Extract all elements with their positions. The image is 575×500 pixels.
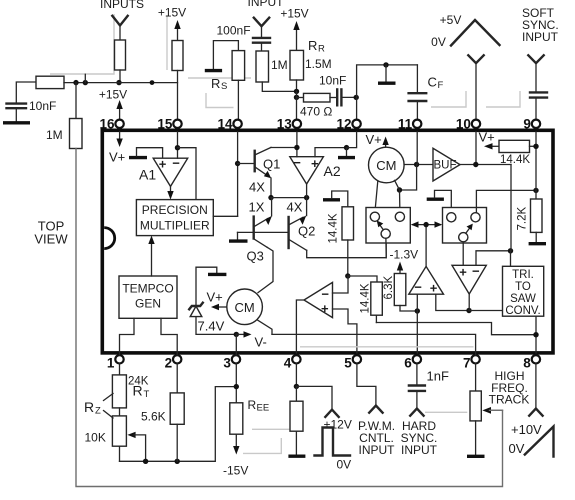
- svg-text:CM: CM: [234, 300, 254, 315]
- arrow V+ left (14.4K horizontal): [490, 145, 499, 147]
- input connector fork (HARD SYNC): [410, 409, 423, 416]
- block TRI TO SAW CONV: [503, 266, 544, 316]
- svg-text:R: R: [84, 399, 94, 415]
- svg-text:4X: 4X: [249, 180, 265, 195]
- wire node to 14.4K lower: [348, 276, 377, 282]
- wire antenna to pin 10: [475, 63, 477, 119]
- node pin3 dot: [234, 384, 239, 389]
- wire load resistor to ground: [295, 431, 297, 454]
- wire cap to pin 9: [535, 98, 537, 119]
- node summing junction dot: [116, 80, 121, 85]
- svg-text:13: 13: [277, 117, 293, 132]
- svg-text:10K: 10K: [85, 431, 106, 445]
- wire trimmer bottom to ground: [475, 421, 477, 455]
- node pin14/Q1 base dot: [235, 161, 240, 166]
- ground bar (Rs): [205, 69, 222, 72]
- svg-text:10nF: 10nF: [319, 74, 346, 88]
- wire pin 7 to trimmer: [475, 364, 477, 392]
- trimmer HIGH FREQ TRACK: [470, 391, 481, 421]
- wire pin11 net down to CM1 right lead: [400, 165, 417, 191]
- SW1 lever arrow: [379, 224, 383, 230]
- wire 6.3K to pin6 node: [400, 306, 417, 312]
- svg-text:-1.3V: -1.3V: [390, 248, 419, 262]
- wire cap to connector: [416, 391, 418, 408]
- svg-text:GEN: GEN: [135, 297, 161, 311]
- ghost wire (dimmed) near pin 10: [431, 91, 466, 107]
- wire pin 9 into IC: [535, 132, 537, 199]
- node pin4 dot: [294, 384, 299, 389]
- block TEMPCO GEN: [119, 276, 177, 318]
- svg-text:−: −: [321, 287, 329, 302]
- wire comparator C + input to SW2: [462, 242, 464, 265]
- wire 1M to pin13 node: [262, 82, 296, 91]
- IC orientation notch: [104, 228, 115, 249]
- wire REE to -15V arrow: [235, 434, 237, 448]
- svg-text:T: T: [144, 389, 150, 400]
- node pin12 dot: [354, 95, 359, 100]
- wire zener bottom to V- node: [196, 317, 236, 335]
- resistor pull-up pin15: [172, 41, 183, 71]
- ghost wire (dimmed) near pin15 pull-up: [166, 15, 168, 70]
- wire Q1 emitter down: [270, 178, 272, 198]
- wire V- node to pin 3: [235, 334, 237, 355]
- svg-text:R: R: [318, 44, 325, 55]
- svg-text:BUF: BUF: [434, 160, 457, 172]
- transistor Q1 (4X): [253, 151, 255, 171]
- ground bar (7.2K): [529, 242, 546, 245]
- wire antenna to 100nF cap: [261, 26, 263, 37]
- wire 470R to 10nF: [330, 97, 337, 99]
- svg-text:TRI.: TRI.: [512, 269, 534, 281]
- svg-text:INPUT: INPUT: [522, 30, 559, 44]
- svg-text:−: −: [414, 280, 422, 295]
- wire pin 8 to connector: [535, 364, 537, 409]
- svg-text:1M: 1M: [46, 128, 63, 142]
- svg-text:+15V: +15V: [280, 7, 308, 21]
- Rz pointer ticks: [104, 394, 114, 401]
- wire TRI box top feed: [510, 251, 512, 266]
- ghost wire (dimmed) near input antenna: [50, 14, 114, 74]
- svg-text:10nF: 10nF: [29, 99, 56, 113]
- svg-text:A1: A1: [139, 167, 156, 183]
- wire 10nF to summing resistor: [16, 82, 36, 103]
- zener 7.4V hook to rail: [196, 267, 217, 305]
- trimmer wiper arrow (10K): [127, 432, 135, 438]
- wire pin 2 to 5.6K: [176, 364, 178, 393]
- resistor summing (horizontal): [36, 76, 64, 88]
- SW2 contact right: [471, 213, 480, 222]
- node 14.4K/comparator dot: [345, 273, 350, 278]
- wire between dots / to pin 13: [296, 91, 298, 119]
- wire resistor to summing node: [119, 70, 121, 83]
- wire pin9 net down to SW2 right contact: [476, 190, 536, 212]
- switch SW1 box: [366, 208, 410, 244]
- ground (wide bar): [3, 121, 30, 124]
- svg-text:0V: 0V: [431, 35, 446, 49]
- pin16 V+ arrow inside: [119, 132, 121, 141]
- node pin13/RR dot: [294, 89, 299, 94]
- svg-text:R: R: [308, 38, 317, 53]
- wire multiplier right to pin14 net: [213, 215, 237, 217]
- pin 10 circle: [472, 120, 480, 128]
- svg-text:+10V: +10V: [511, 422, 542, 437]
- wire pin13 to A2 - input: [296, 132, 298, 157]
- wire cap to ground: [15, 108, 17, 121]
- trimmer wiper arrow (track): [482, 407, 491, 414]
- SW2 contact common: [459, 233, 468, 242]
- wire CM1 left lead to SW1: [375, 181, 378, 212]
- wire pin 4 node: [295, 364, 297, 387]
- wire Q3 collector up to junction: [271, 198, 273, 216]
- svg-text:INPUT: INPUT: [401, 443, 438, 457]
- wire Q1 collector to pin13 node: [271, 147, 297, 149]
- resistor 24K (Rz upper): [112, 375, 126, 408]
- svg-text:4: 4: [284, 356, 292, 371]
- wire pin12 node up and over to pin 11: [357, 65, 418, 98]
- resistor 6.3K: [394, 274, 406, 306]
- input connector antenna (pin9): [528, 55, 543, 63]
- node ghost stub dot: [83, 80, 88, 85]
- svg-text:Q3: Q3: [247, 249, 264, 264]
- svg-text:V+: V+: [109, 150, 125, 165]
- wire pin15 down to A1 - input: [177, 132, 179, 158]
- wire bar hook to 14.4K upper: [332, 191, 348, 207]
- resistor 7.2K: [531, 199, 543, 232]
- wire bar hook to SW2 left contact: [435, 190, 452, 212]
- svg-text:1nF: 1nF: [427, 369, 449, 384]
- svg-text:PRECISION: PRECISION: [142, 203, 208, 217]
- ground bar (pin12 net): [378, 81, 396, 84]
- svg-text:Z: Z: [95, 406, 101, 417]
- wire pin14 vertical: [237, 132, 239, 216]
- ghost wire (dimmed) near Rs: [206, 93, 234, 108]
- resistor RT 5.6K: [170, 393, 184, 424]
- wire 7.2K to ground: [535, 232, 537, 242]
- resistor 14.4K (upper): [342, 207, 354, 240]
- net arrow V-: [236, 333, 245, 335]
- supply arrow +15V RR: [296, 27, 298, 50]
- svg-text:6.3K: 6.3K: [383, 276, 395, 300]
- svg-text:R: R: [248, 398, 257, 412]
- output connector fork (pin4 PWM out): [325, 410, 338, 417]
- wire V+ bar hook to A1 + input: [137, 148, 163, 159]
- pin 11 circle: [413, 120, 421, 128]
- wire pin4 to output connector: [296, 386, 332, 409]
- wire comparator C output: [468, 294, 470, 311]
- wire V- bus to pin7 lead: [272, 334, 476, 355]
- wire BUF output: [460, 164, 511, 166]
- wire 1M tap down: [75, 83, 77, 119]
- wire CM1 to BUF input: [404, 164, 433, 166]
- resistor pin4 load: [290, 401, 303, 431]
- waveform triangle symbol: [451, 20, 500, 46]
- capacitor 10nF (left): [7, 104, 27, 109]
- node mid dot: [150, 80, 155, 85]
- svg-text:+5V: +5V: [440, 13, 462, 27]
- svg-text:CM: CM: [376, 158, 396, 173]
- IC package outline U1: [102, 130, 553, 353]
- ground bar (SW2 left): [427, 197, 444, 200]
- resistor Rs: [232, 51, 245, 81]
- svg-text:Q1: Q1: [263, 157, 280, 172]
- supply arrow V+ CM1: [385, 142, 387, 147]
- resistor 14.4K (lower): [371, 282, 383, 315]
- node pin11/BUF dot: [414, 162, 419, 167]
- node RT dot: [175, 459, 180, 464]
- svg-text:+: +: [430, 281, 438, 296]
- capacitor 1nF: [409, 386, 425, 391]
- ghost wire (dimmed) inside IC bottom: [300, 346, 474, 348]
- comparator B (points up): [409, 266, 444, 294]
- svg-text:5.6K: 5.6K: [141, 410, 166, 424]
- wire 10nF to pin12 node: [341, 96, 356, 98]
- wire TEMPCO right stub to pin 2: [161, 318, 177, 355]
- wire junction to A2 output node: [271, 197, 307, 199]
- svg-text:EE: EE: [257, 403, 270, 414]
- wire node to TRI TO SAW left: [469, 310, 503, 312]
- SW2 contact left: [447, 213, 456, 222]
- ground bar (track trimmer): [467, 455, 485, 458]
- node switch bus dot: [423, 222, 428, 227]
- svg-text:14.4K: 14.4K: [360, 283, 372, 313]
- capacitor 10nF (pin12, vertical plates): [337, 89, 341, 105]
- wire ground stem: [385, 65, 387, 82]
- pin 2 circle: [173, 355, 181, 363]
- output connector fork (saw out): [529, 409, 542, 416]
- wire pin 10 into IC to BUF output: [475, 132, 477, 165]
- wire 10K bottom to bus: [119, 446, 121, 461]
- svg-text:1.5M: 1.5M: [305, 57, 332, 71]
- zener diode 7.4V: [190, 306, 202, 316]
- wire CM2 lower lead to V- bus: [258, 320, 273, 334]
- switch bus double arrow: [413, 224, 441, 226]
- ghost wire (dimmed) right of pin15 node: [188, 77, 251, 79]
- svg-text:SAW: SAW: [510, 293, 536, 305]
- pin 9 circle: [532, 120, 540, 128]
- input connector antenna (pin13): [254, 18, 269, 27]
- node wiper dot: [143, 459, 148, 464]
- switch SW2 box: [443, 208, 487, 244]
- node A2+/pin12 dot: [344, 145, 349, 150]
- wire TEMPCO to multiplier arrow: [151, 241, 153, 276]
- svg-text:R: R: [211, 76, 220, 91]
- svg-text:2: 2: [165, 356, 173, 371]
- node BUF/TRI dot: [508, 248, 513, 253]
- block PRECISION MULTIPLIER: [136, 200, 213, 236]
- pin 3 circle: [232, 355, 240, 363]
- wire 5.6K to bus: [176, 424, 178, 461]
- node 1M tap dot: [73, 80, 78, 85]
- pin 12 circle: [352, 120, 360, 128]
- svg-text:15: 15: [157, 117, 173, 132]
- svg-text:7.4V: 7.4V: [198, 319, 225, 334]
- svg-text:6: 6: [404, 356, 412, 371]
- wire pin12 into IC: [347, 132, 357, 148]
- svg-text:-15V: -15V: [223, 464, 248, 478]
- svg-text:V+: V+: [479, 130, 495, 145]
- node pin9 net dot: [533, 188, 538, 193]
- wire common base bus: [238, 231, 289, 233]
- pin 16 circle: [115, 120, 123, 128]
- input connector fork (PWM CNTL): [369, 406, 382, 413]
- svg-text:R: R: [133, 383, 143, 399]
- node Q1 emitter junction: [268, 195, 273, 200]
- svg-text:−: −: [172, 156, 180, 171]
- svg-text:+: +: [321, 301, 329, 316]
- svg-text:14.4K: 14.4K: [328, 213, 340, 243]
- op-amp A2: [290, 157, 324, 184]
- pin 8 circle: [532, 355, 540, 363]
- svg-text:16: 16: [99, 117, 115, 132]
- wire CF to pin 11: [416, 101, 418, 119]
- SW1 contact right: [395, 212, 404, 221]
- rail bar (A2+): [338, 156, 355, 159]
- ghost wire (dimmed) near REE b: [243, 438, 281, 453]
- wire TEMPCO left stub to pin 1: [120, 318, 135, 355]
- wire comparator output to pin 4: [296, 300, 304, 353]
- wire down to CF: [416, 65, 418, 93]
- wire Q1 base: [238, 163, 254, 165]
- node ground stem dot: [383, 62, 388, 67]
- wire 14.4K lower to feedback: [375, 315, 377, 322]
- ground bar (pin4 load): [288, 455, 305, 458]
- wire CM1 right lead: [395, 180, 400, 190]
- SW2 lever arrow: [466, 228, 470, 234]
- wire pin 11 into IC: [416, 132, 418, 165]
- transistor Q3 (1X): [252, 217, 254, 239]
- node pin9/14.4K dot: [533, 144, 538, 149]
- svg-text:MULTIPLIER: MULTIPLIER: [140, 219, 210, 233]
- resistor 14.4K (horizontal): [499, 140, 530, 152]
- wire pin 5 to connector: [357, 364, 376, 406]
- wire antenna to R input: [119, 26, 121, 41]
- svg-text:10: 10: [456, 117, 471, 132]
- current mirror CM2: [227, 289, 263, 325]
- svg-text:5: 5: [344, 356, 352, 371]
- ground bar (Q2/Q3 base): [229, 239, 248, 242]
- buffer BUF: [433, 148, 460, 181]
- svg-text:VIEW: VIEW: [34, 232, 68, 247]
- wire A1 output arrow: [170, 186, 172, 193]
- wire dot to 470R: [297, 97, 304, 99]
- node pin10/BUF out dot: [473, 162, 478, 167]
- wire Q2 collector to A2 output: [306, 198, 308, 216]
- capacitor soft sync: [530, 92, 547, 97]
- wire TRI box bottom to pin 8: [535, 316, 537, 353]
- svg-text:3: 3: [223, 356, 231, 371]
- wire RR to node: [296, 80, 298, 91]
- svg-text:+15V: +15V: [158, 6, 186, 20]
- wire bottom bus: [120, 387, 237, 462]
- wire pin 6 to cap: [416, 364, 418, 386]
- wire BUF out down to comparator C net: [510, 165, 512, 251]
- rail bar (14.4K upper V+): [323, 198, 340, 201]
- wire Rs to pin 14: [237, 80, 239, 119]
- ghost wire (dimmed) near REE a: [252, 428, 289, 430]
- node 470R dot: [294, 95, 299, 100]
- resistor 470 ohm: [304, 93, 331, 102]
- wire comparator B apex to switch bus: [425, 225, 427, 267]
- wire summing bus: [64, 82, 178, 84]
- rail bar stem (A2+): [346, 148, 348, 156]
- svg-text:INPUT: INPUT: [359, 443, 396, 457]
- wire Q2 emitter to switch SW1: [307, 239, 387, 258]
- capacitor 100nF: [253, 38, 270, 43]
- pin 5 circle: [353, 355, 361, 363]
- wire SW1 common down: [385, 238, 387, 257]
- resistor 1M (left): [70, 119, 83, 149]
- resistor RR 1.5M: [290, 50, 304, 80]
- input connector antenna (left): [112, 16, 127, 26]
- wire pin6 node to comparator B - input: [416, 294, 418, 311]
- svg-text:V+: V+: [207, 290, 223, 305]
- wire pin4 to load resistor: [295, 386, 297, 401]
- wire A2 + input to pin12 node: [315, 148, 347, 157]
- svg-text:100nF: 100nF: [217, 24, 251, 38]
- svg-text:4X: 4X: [287, 200, 303, 215]
- node TRI input dot: [466, 308, 471, 313]
- svg-text:+12V: +12V: [324, 418, 352, 432]
- svg-text:F: F: [438, 80, 444, 91]
- supply arrow +15V pin16: [119, 106, 121, 119]
- wire cap to 1M: [261, 43, 263, 51]
- rail bar (A1 V+): [129, 156, 147, 159]
- transistor Q2 (4X): [287, 217, 289, 248]
- wire pull-up to pin 15: [177, 71, 179, 120]
- svg-text:1: 1: [107, 356, 115, 371]
- svg-text:1M: 1M: [271, 58, 288, 72]
- wire dot to SW1 right contact: [399, 190, 401, 212]
- svg-text:9: 9: [523, 117, 531, 132]
- pin 1 circle: [115, 355, 123, 363]
- pin 7 circle: [471, 355, 479, 363]
- svg-text:14: 14: [217, 117, 233, 132]
- resistor 1M (input): [256, 51, 269, 82]
- svg-text:1X: 1X: [249, 200, 265, 215]
- node CM1 right lead dot: [397, 187, 402, 192]
- resistor input pull-up (left): [115, 40, 126, 70]
- pin 6 circle: [413, 355, 421, 363]
- wire pin 1 to 24K: [119, 364, 121, 375]
- svg-text:11: 11: [398, 117, 413, 132]
- node A1 feedback dot: [175, 145, 180, 150]
- svg-text:7.2K: 7.2K: [517, 207, 529, 231]
- ghost wire (dimmed) near hard sync: [425, 411, 467, 413]
- svg-text:470 Ω: 470 Ω: [300, 105, 332, 119]
- svg-text:0V: 0V: [509, 441, 525, 456]
- SW1 contact common: [381, 229, 390, 238]
- wire 24K to 10K: [119, 408, 121, 416]
- svg-text:Q2: Q2: [298, 224, 315, 239]
- wire pin6 vertical: [416, 311, 418, 353]
- trimmer 10K (Rz lower): [112, 416, 126, 446]
- wire comparator + input to pin 5: [333, 309, 357, 353]
- svg-text:12: 12: [336, 117, 351, 132]
- node A2 output dot: [304, 195, 309, 200]
- node pin8 feedback dot: [533, 332, 538, 337]
- node pin13 dot: [294, 145, 299, 150]
- current mirror CM1: [369, 147, 405, 183]
- wire stub to ghost: [84, 74, 86, 82]
- wire pin12 node to pin 12: [356, 97, 358, 119]
- ghost wire (dimmed) near pin 9: [486, 91, 520, 107]
- svg-text:+: +: [459, 265, 467, 280]
- SW1 contact left: [370, 212, 379, 221]
- wire pin 3 down: [235, 364, 237, 403]
- svg-text:7: 7: [463, 356, 471, 371]
- supply arrow +15V pin15: [177, 26, 179, 41]
- svg-text:TEMPCO: TEMPCO: [122, 282, 173, 296]
